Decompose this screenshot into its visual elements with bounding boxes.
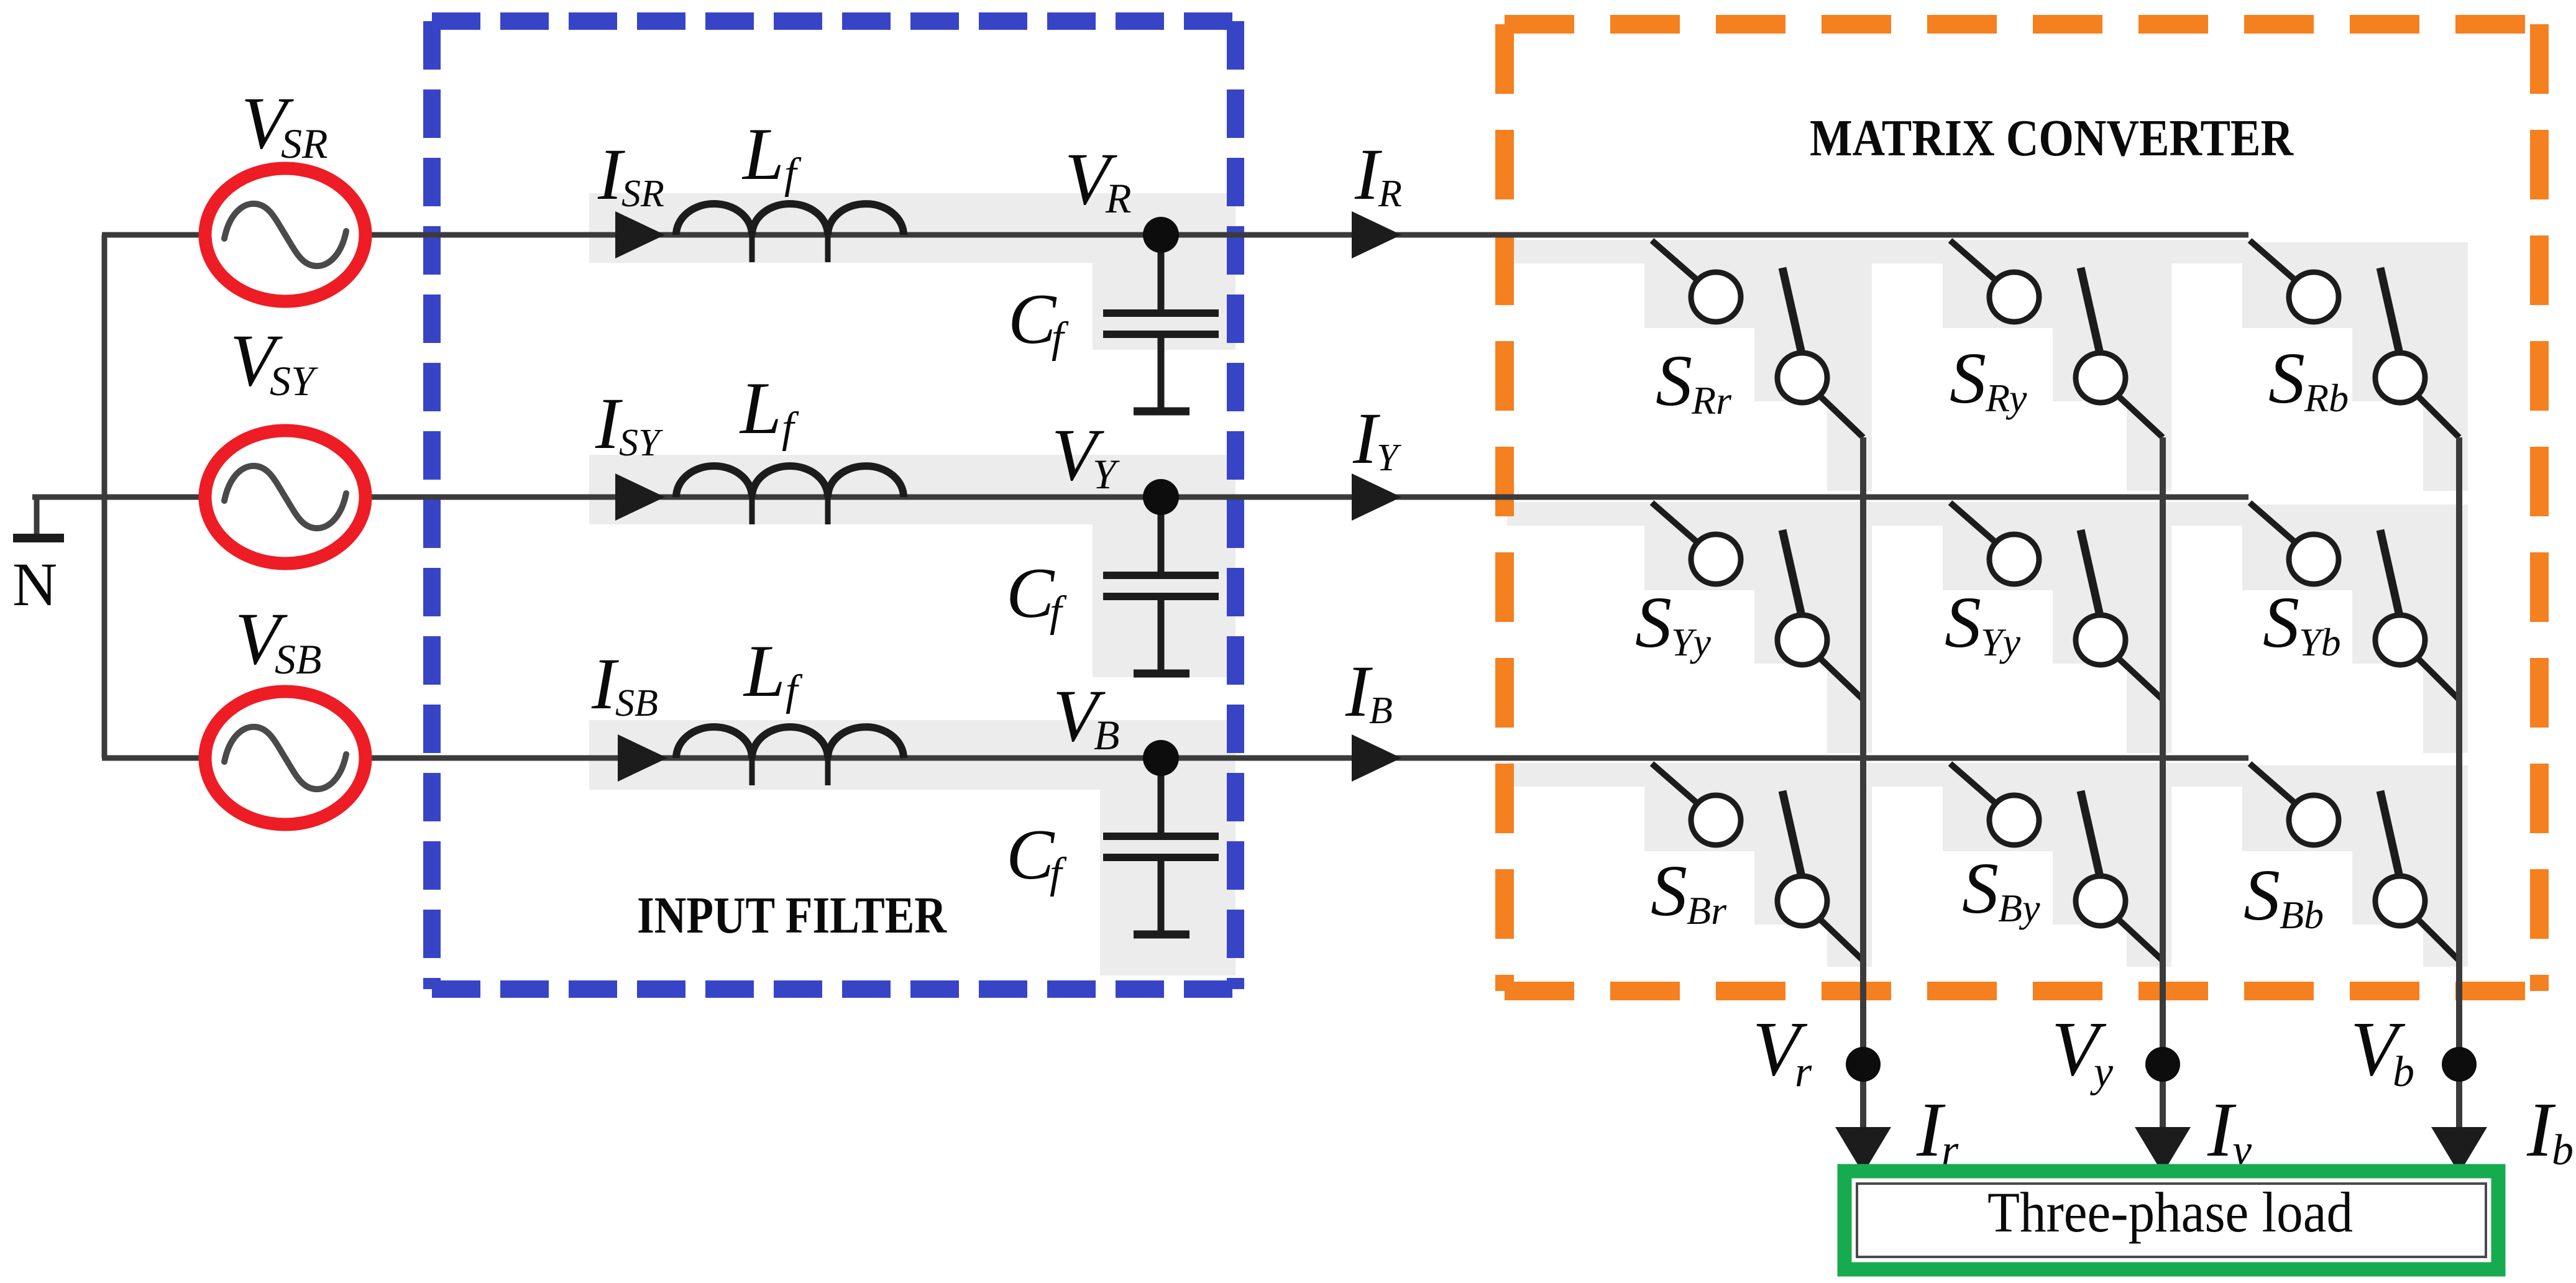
switch SBb (B row, b column) [2250,764,2459,961]
switch SYb (Y row, b column) [2250,503,2459,700]
inductor Lf [676,204,904,235]
matrix converter boundary box (orange dashed) [1505,24,2539,991]
switch SYy (Y row, r column) [1652,503,1863,700]
svg-text:S: S [1651,850,1687,931]
arrow Ir (load current) [1835,1127,1891,1174]
node Vr junction dot [1846,1047,1881,1082]
three-phase load box [1845,1171,2498,1269]
node junction dot [1143,740,1179,776]
svg-text:INPUT FILTER: INPUT FILTER [637,887,947,944]
svg-text:Bb: Bb [2280,893,2324,937]
svg-text:S: S [1635,582,1672,663]
svg-text:R: R [1378,173,1402,215]
svg-text:S: S [2263,582,2299,663]
node junction dot [1143,217,1179,253]
switch SRb (R row, b column) [2250,240,2459,437]
wire: output column b vertical [2456,437,2462,1130]
svg-text:SR: SR [281,120,328,167]
svg-text:MATRIX CONVERTER: MATRIX CONVERTER [1810,109,2294,167]
svg-text:SB: SB [275,636,322,683]
arrow Ib (load current) [2431,1127,2487,1174]
svg-text:Br: Br [1687,888,1727,933]
wire: phase B horizontal [102,756,2248,761]
ac source VSY [205,431,365,564]
svg-text:C: C [1008,280,1057,359]
node Vy junction dot [2145,1047,2180,1082]
svg-text:C: C [1006,554,1055,633]
svg-text:y: y [2090,1048,2114,1096]
arrow ISB [618,734,667,782]
arrow IY [1352,473,1401,521]
wire: output column y vertical [2160,437,2166,1130]
svg-text:S: S [2268,337,2305,419]
input filter boundary box (blue dashed) [432,21,1235,989]
inductor Lf [676,466,904,497]
svg-text:SY: SY [270,357,318,404]
svg-text:L: L [741,112,784,195]
arrow Iy (load current) [2135,1127,2191,1174]
svg-text:Rr: Rr [1691,378,1732,422]
svg-text:Yy: Yy [1981,620,2021,664]
svg-text:SB: SB [615,682,658,724]
svg-text:S: S [2244,854,2280,936]
wire: phase Y horizontal [32,495,2248,500]
svg-text:b: b [2393,1048,2414,1096]
svg-text:B: B [1369,690,1393,732]
ac source VSB [205,692,365,824]
ground bar N [13,534,64,542]
wire: output column r vertical [1860,437,1866,1130]
arrow ISR [615,211,665,258]
wire: left neutral bus [102,235,108,758]
capacitor Cf [1103,235,1219,411]
svg-text:L: L [739,367,782,449]
ac source VSR [205,168,365,301]
svg-text:Rb: Rb [2304,376,2349,420]
inductor Lf [676,727,904,758]
svg-text:C: C [1006,815,1055,895]
ground stub wire to N [34,497,40,537]
svg-text:S: S [1656,340,1692,421]
arrow IR [1352,211,1401,258]
svg-text:L: L [743,629,786,712]
svg-text:Three-phase load: Three-phase load [1987,1180,2353,1244]
svg-text:S: S [1945,582,1981,663]
svg-text:Yy: Yy [1671,620,1712,664]
switch SBr (B row, r column) [1652,764,1863,961]
switch SYy (Y row, y column) [1950,503,2163,700]
svg-text:B: B [1094,711,1120,759]
arrow IB [1352,734,1401,782]
wire: phase R horizontal [102,232,2248,238]
switch SRy (R row, y column) [1950,240,2163,437]
svg-text:By: By [1998,886,2040,930]
svg-text:R: R [1105,175,1132,222]
switch SRr (R row, r column) [1652,240,1863,437]
capacitor Cf [1103,497,1219,673]
svg-text:S: S [1950,337,1986,419]
switch SBy (B row, y column) [1950,764,2163,961]
arrow ISY [615,473,665,521]
svg-text:S: S [1962,847,1999,929]
svg-text:N: N [12,550,57,619]
svg-text:Y: Y [1093,450,1120,498]
svg-text:SR: SR [621,173,664,215]
svg-text:Yb: Yb [2299,620,2341,664]
svg-text:Y: Y [1377,437,1401,479]
node junction dot [1143,479,1179,515]
svg-text:SY: SY [619,422,663,464]
svg-text:r: r [1795,1048,1812,1096]
node Vb junction dot [2442,1047,2477,1082]
capacitor Cf [1103,758,1219,934]
svg-text:b: b [2552,1126,2574,1174]
svg-text:Ry: Ry [1985,376,2027,420]
